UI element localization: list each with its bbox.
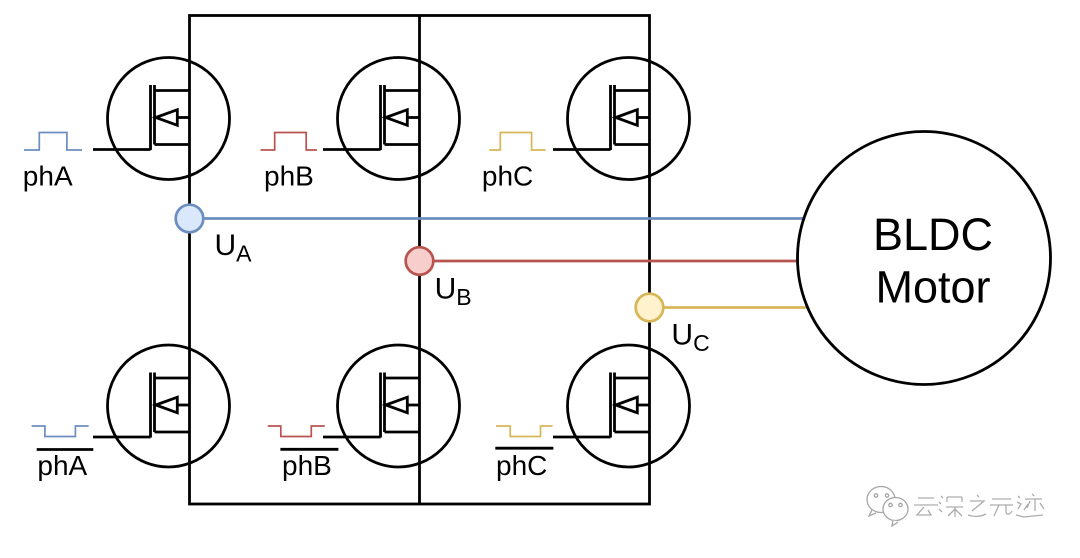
svg-text:phB: phB <box>282 450 332 481</box>
label phB-bar overline <box>280 448 338 451</box>
pulse waveform phB (red, high pulse) <box>261 133 318 151</box>
pulse waveform phC-bar (yellow, low pulse) <box>496 426 552 437</box>
label phC-bar overline <box>495 447 553 450</box>
node UA (blue junction) <box>176 205 204 233</box>
svg-text:Motor: Motor <box>875 261 990 312</box>
watermark logo (wechat bubbles) <box>867 487 908 527</box>
svg-text:phA: phA <box>37 450 87 481</box>
wire DC bus rectangle (top bus, left rail, right rail, bottom bus) <box>190 16 650 505</box>
wire phase C line (yellow) <box>650 306 808 309</box>
transistor Q3 (top, phase B) <box>323 58 460 180</box>
pulse waveform phC (yellow, high pulse) <box>489 133 545 151</box>
wire middle rail <box>418 16 421 505</box>
transistor Q2 (bottom, phase A) <box>93 345 230 467</box>
svg-text:BLDC: BLDC <box>873 209 993 260</box>
wire phase A line (blue) <box>190 217 804 220</box>
transistor Q5 (top, phase C) <box>553 58 690 180</box>
pulse waveform phA (blue, high pulse) <box>24 133 82 151</box>
label phA-bar overline <box>37 448 94 451</box>
svg-text:phC: phC <box>496 450 547 481</box>
transistor Q4 (bottom, phase B) <box>323 345 460 467</box>
svg-text:phA: phA <box>23 161 73 192</box>
node UB (red junction) <box>406 247 434 275</box>
motor M1 (BLDC motor) <box>798 132 1051 385</box>
pulse waveform phB-bar (red, low pulse) <box>268 426 325 437</box>
svg-text:phB: phB <box>264 161 314 192</box>
watermark text (gray embossed strokes) <box>914 494 1044 517</box>
svg-text:phC: phC <box>482 161 533 192</box>
node UC (yellow junction) <box>636 294 664 322</box>
wire phase B line (red) <box>420 260 799 263</box>
pulse waveform phA-bar (blue, low pulse) <box>32 426 89 437</box>
transistor Q1 (top, phase A) <box>93 58 230 180</box>
transistor Q6 (bottom, phase C) <box>553 345 690 467</box>
